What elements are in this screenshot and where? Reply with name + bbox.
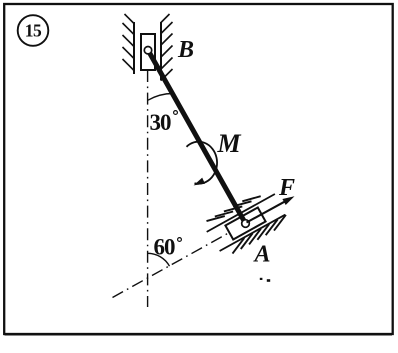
force F arrow shaft <box>247 199 290 222</box>
speck 1 <box>260 278 263 280</box>
moment arrowhead <box>194 178 205 186</box>
vertical axis dash-dot line <box>147 70 149 307</box>
svg-text:F: F <box>278 175 295 201</box>
svg-text:60: 60 <box>154 235 176 260</box>
slider block B <box>141 34 155 70</box>
degree mark of 30 <box>174 111 178 115</box>
svg-text:15: 15 <box>25 21 42 41</box>
wall hatching left <box>123 14 135 71</box>
wall hatching right <box>161 14 173 81</box>
frame bottom heavy edge <box>5 334 393 336</box>
degree mark of 60 <box>178 238 182 242</box>
30 degree angle arc <box>148 94 173 101</box>
incline hatching lower <box>233 215 286 254</box>
slider block A <box>225 208 265 240</box>
incline upper guide line <box>207 194 275 232</box>
svg-text:B: B <box>177 37 194 63</box>
incline lower guide line <box>220 215 286 251</box>
inclined axis dash-dot line <box>113 218 257 298</box>
rod AB <box>149 51 246 224</box>
force F arrowhead <box>282 196 294 205</box>
svg-text:30: 30 <box>150 110 172 135</box>
pin A <box>242 220 250 228</box>
speck 2 <box>267 279 270 282</box>
moment arc M <box>187 142 218 184</box>
problem number 15 circle <box>18 15 49 46</box>
wall right guide line <box>160 22 162 81</box>
svg-text:A: A <box>253 242 271 268</box>
svg-text:M: M <box>217 129 242 158</box>
wall left guide line <box>133 22 135 74</box>
pin B <box>144 47 151 54</box>
incline hatching upper <box>207 196 261 221</box>
60 degree angle arc <box>148 253 170 266</box>
